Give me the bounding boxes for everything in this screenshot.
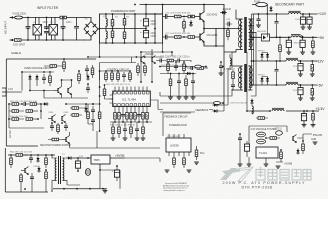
sections go here <box>4 4 257 96</box>
resistor R80 <box>232 70 235 82</box>
resistor R21 <box>144 63 147 76</box>
resistor R32 <box>126 111 129 123</box>
capacitor C50 snub1 <box>275 13 279 38</box>
op-amp U2 LM339 box <box>166 138 191 152</box>
transformer T1 winding ellipses L <box>239 20 241 47</box>
transistor Q9 <box>21 167 29 175</box>
inductor L8 <box>286 82 301 85</box>
wire +12V row <box>252 13 318 15</box>
resistor R3 <box>111 31 114 43</box>
resistor R23 <box>167 62 170 74</box>
diode D7 rect12 <box>269 6 272 12</box>
transformer T1 winding ellipses R <box>250 20 252 47</box>
transformer L1 filter choke <box>33 25 42 36</box>
resistor R34 <box>134 111 137 123</box>
wire gnd bus <box>53 189 107 191</box>
resistor R72 PG <box>195 146 198 160</box>
resistor R8 <box>188 15 195 18</box>
resistor R84 <box>111 122 116 140</box>
transformer T1 secondary winding <box>249 19 251 50</box>
wire choke L1 leads <box>36 18 40 41</box>
wire sb top rail <box>8 154 55 156</box>
inductor L6 <box>291 35 303 38</box>
capacitor C45 <box>123 122 128 140</box>
wire divider2 <box>6 145 38 147</box>
capacitor C38 <box>112 166 120 181</box>
transistor Q8 <box>62 115 66 123</box>
resistor R60 <box>10 155 13 168</box>
resistor R76 <box>280 150 283 162</box>
capacitor C11 <box>286 36 291 52</box>
resistor R9 <box>175 36 182 39</box>
ground ps <box>313 142 318 144</box>
capacitor C26 <box>166 15 167 19</box>
ground fb1 <box>165 170 170 172</box>
wire HV+ rail <box>99 14 101 43</box>
resistor R53 <box>26 110 38 113</box>
transformer T2 primary winding <box>241 66 242 90</box>
wire t2 to control <box>160 89 232 96</box>
ground 33c <box>264 164 269 166</box>
diode pair D9a D9b <box>260 53 269 62</box>
diode D20 <box>36 157 39 163</box>
wire vert x162.6 <box>162 5 164 44</box>
resistor R40 <box>44 65 62 68</box>
capacitor C16 <box>174 59 184 63</box>
diode D5 <box>189 21 192 27</box>
ground fb2 <box>187 170 192 172</box>
U1 pins top <box>115 87 147 92</box>
transistor Q15 <box>62 136 70 144</box>
resistor R73 <box>312 110 315 124</box>
resistor R71 <box>183 156 186 168</box>
transistor Q1 2SC4242 <box>200 12 204 23</box>
U1 pin boxes top <box>114 91 149 94</box>
resistor R36 <box>146 111 149 123</box>
wire -5V row <box>252 84 318 86</box>
wire section divider <box>6 59 96 146</box>
diode D25 <box>296 149 299 155</box>
wire Q1 collector <box>203 5 205 12</box>
wire midband bus3 <box>160 102 223 104</box>
node dots cluster ovp <box>21 71 23 73</box>
wire Q2 emitter <box>204 42 216 46</box>
resistor R92 <box>91 65 94 78</box>
capacitor C40 <box>301 110 306 124</box>
wire HV top line <box>140 4 224 6</box>
ground C11 <box>286 52 291 54</box>
wire sense <box>6 91 22 93</box>
ground R14 <box>310 74 315 76</box>
wire to transformer <box>216 29 241 47</box>
ground 33a <box>238 164 243 166</box>
wire sb left border <box>4 148 6 192</box>
capacitor C46 <box>135 122 140 140</box>
ground C14 <box>298 98 303 100</box>
wire cap leads <box>145 14 147 43</box>
capacitor C14 <box>298 84 303 98</box>
resistor R82 oval <box>195 65 201 68</box>
resistor R14 <box>311 60 314 74</box>
resistor R50 <box>9 103 22 106</box>
inductor L3 <box>106 19 107 27</box>
wire +3.3V row <box>247 110 319 112</box>
wire x99 mid <box>99 71 101 104</box>
wire feedback bus <box>216 46 224 105</box>
capacitor C48 <box>85 65 89 76</box>
resistor R81 <box>256 117 268 120</box>
capacitor C22 <box>137 111 141 123</box>
wire hv to t1 top <box>146 13 163 15</box>
resistor R24 <box>183 62 186 74</box>
U1 pin boxes bottom <box>114 104 149 107</box>
resistor R70 <box>173 156 176 168</box>
diode bridge B1 <box>84 22 98 37</box>
capacitor C15 <box>156 59 166 63</box>
wire L-bottom rail <box>10 39 84 41</box>
wire U1 feedback out <box>150 100 163 110</box>
wire sec to 3.3 <box>246 52 248 111</box>
capacitor C10 <box>307 13 312 27</box>
inductor L4 <box>106 31 107 39</box>
capacitor C41 <box>238 134 242 144</box>
capacitor CY1 CY2 <box>45 18 49 41</box>
diode D22 <box>67 156 73 159</box>
U1 pins bottom <box>115 107 147 111</box>
wire hline y122 <box>110 121 152 123</box>
wire T3 leads <box>52 155 67 192</box>
U2 pins <box>169 134 189 156</box>
watermark elecfans <box>220 168 240 180</box>
resistor R30 <box>114 111 117 123</box>
fuse F1 <box>15 16 23 19</box>
resistor R93 <box>48 138 62 141</box>
wire vert x41 <box>9 104 41 119</box>
wire midband bus2 <box>160 73 196 75</box>
wire links lc <box>9 104 100 128</box>
ground R73 <box>311 125 316 127</box>
rc column D <box>191 74 196 100</box>
resistor R33 <box>130 111 133 123</box>
resistor R91 <box>98 104 101 131</box>
capacitor C13 <box>298 60 303 74</box>
capacitor C24 <box>42 74 46 84</box>
rc column A <box>168 74 173 100</box>
node dots left cluster <box>8 103 10 105</box>
wire vert x224 <box>223 5 225 47</box>
wire sec vertical bus <box>254 14 268 85</box>
resistor R43 <box>78 71 81 84</box>
wire vert x135 <box>134 14 136 43</box>
node dots primary <box>183 16 185 18</box>
regulator U3 7805 box <box>91 155 110 164</box>
resistor R63 <box>20 173 23 192</box>
capacitor CX2 <box>61 18 65 41</box>
wire T2 leads <box>232 66 252 90</box>
resistor R22 <box>167 59 174 62</box>
diode D6 1N4148 <box>221 11 227 14</box>
resistor NTC1 <box>15 39 22 42</box>
coil L11 <box>252 105 253 114</box>
inductor L10 magamp <box>272 108 284 111</box>
wire mid tap <box>100 28 147 30</box>
node dots extra <box>99 103 101 105</box>
resistor R51 <box>30 103 41 106</box>
transformer L2 filter choke <box>49 25 58 36</box>
wire sec center tap <box>251 33 256 96</box>
wire 7805 in-out <box>88 158 125 170</box>
wire T1 primary leads <box>224 10 242 52</box>
capacitor C6 electrolytic <box>140 30 156 38</box>
wire control box <box>100 63 136 81</box>
transformer T2 winding ellipses <box>239 68 253 88</box>
wire ovp drop links <box>88 104 93 131</box>
diode D27 <box>186 72 192 75</box>
diode D23 <box>213 103 225 106</box>
capacitor C19 <box>219 62 224 75</box>
resistor R26 <box>105 71 108 82</box>
capacitor C36 <box>30 173 34 183</box>
transformer T3 core <box>58 156 60 184</box>
capacitor C30 <box>24 102 29 106</box>
wire sb out <box>73 157 89 159</box>
capacitor C47 <box>91 115 95 126</box>
capacitor C35 <box>29 155 33 163</box>
transformer T2 core <box>244 64 247 92</box>
transformer T3 secondary <box>63 158 64 180</box>
op-amp U4 TL431 box <box>256 147 278 158</box>
capacitor C44 <box>231 82 235 90</box>
resistor R4 <box>123 14 126 32</box>
wire midband bus1 <box>160 66 206 68</box>
resistor R11 mid <box>183 19 186 32</box>
capacitor C21 <box>121 111 125 123</box>
resistor R1 top rail <box>60 16 67 19</box>
capacitor C20 <box>122 72 126 82</box>
resistor R57 <box>70 107 82 110</box>
diode D24 <box>213 105 225 113</box>
resistor R27 <box>111 71 114 82</box>
ground C12 <box>300 52 305 54</box>
capacitor C37 <box>75 157 80 171</box>
resistor R13 <box>312 36 315 52</box>
resistor R61 <box>16 154 28 157</box>
transistor Q11 oval <box>257 132 266 137</box>
resistor R10 <box>188 36 195 39</box>
diode D12 <box>28 75 31 81</box>
resistor R54 <box>9 118 24 121</box>
wire U1 left pins <box>110 95 113 103</box>
resistor R20 <box>137 63 140 76</box>
transistor Q6 <box>68 87 72 95</box>
wire 33 bottoms <box>240 144 266 164</box>
wire +5V row <box>252 36 318 38</box>
transformer T1 primary winding <box>241 19 243 50</box>
transformer T2 secondary winding <box>249 66 251 90</box>
wire q15 <box>69 132 71 148</box>
transformer T1 core <box>244 17 247 53</box>
resistor R15 <box>311 84 314 98</box>
ground bus end <box>103 191 108 193</box>
wire L-top rail <box>10 17 84 19</box>
node dots standby <box>10 154 12 156</box>
node input arrows <box>10 16 13 41</box>
wire row2 <box>163 36 200 38</box>
wire y62 run <box>163 52 191 62</box>
transistor Q14 <box>293 135 297 143</box>
resistor R90 <box>87 108 90 124</box>
ground C10 <box>307 27 312 29</box>
resistor R28 <box>117 71 120 82</box>
wire Q1 emitter to node <box>204 21 224 28</box>
rectifier D8 block <box>262 34 270 41</box>
resistor R2 <box>111 14 114 31</box>
junction dots input <box>27 17 29 19</box>
wire feedback line <box>160 110 213 113</box>
resistor R56 <box>57 123 60 134</box>
resistor R94 left of IC <box>103 84 113 99</box>
wire drive parts <box>224 68 228 105</box>
wire 33 box <box>249 126 287 144</box>
resistor R85 <box>118 122 121 138</box>
wire bridge AC in <box>84 18 91 41</box>
wire sb drops <box>32 182 52 192</box>
node dots gnd bus <box>63 188 65 190</box>
ground fb3 <box>194 162 199 164</box>
wire row1 <box>163 16 200 18</box>
wire drive bus1 <box>232 52 236 68</box>
wire T1 secondary taps <box>249 19 256 50</box>
diode D14 <box>86 75 89 81</box>
resistor R62 <box>45 155 48 168</box>
resistor R64 <box>45 170 48 182</box>
wire sb bottom rail <box>5 191 48 193</box>
resistor R75 <box>302 141 305 154</box>
capacitor CX3 <box>75 18 79 41</box>
wire ovp links <box>22 72 88 98</box>
capacitor C5 electrolytic <box>140 19 156 27</box>
diode D26 <box>250 99 253 105</box>
wire bridge DC out <box>98 28 100 30</box>
resistor R87 <box>141 122 146 140</box>
capacitor C12 <box>300 36 305 52</box>
resistor R29 <box>129 71 132 82</box>
transistor Q10 opto <box>85 169 90 176</box>
node dots control <box>105 70 107 72</box>
transistor Q13 BT131 <box>275 129 282 136</box>
capacitor C9 <box>300 13 305 27</box>
resistor R55 <box>26 118 38 121</box>
resistor R7 <box>175 15 182 18</box>
fuse F2 output <box>252 1 267 14</box>
capacitor C25 <box>86 84 90 93</box>
diode D13 <box>35 75 38 81</box>
wire drive lines <box>141 49 163 82</box>
wire sb link <box>125 158 283 162</box>
wire sec vertical bus2 <box>251 14 253 85</box>
transistor Q4 2SC945 <box>152 56 156 64</box>
resistor R52 <box>9 110 24 113</box>
resistor R83 oval <box>214 102 221 105</box>
coil L9 vert <box>230 54 231 70</box>
inductor L5 <box>289 11 301 14</box>
transformer T3 primary <box>55 158 56 180</box>
capacitor CX1 <box>26 18 30 41</box>
capacitor C31 <box>50 123 54 131</box>
wire driver rail y57 <box>88 43 163 63</box>
wire ps-on <box>303 134 312 141</box>
resistor R25 <box>197 67 208 70</box>
wire 5vsb feed <box>70 131 160 148</box>
resistor R86 <box>130 122 133 138</box>
transistor Q2 2SC4242 <box>200 32 204 43</box>
wire coil leads <box>105 14 107 43</box>
transistor Q5 <box>54 87 62 95</box>
transistor Q7 <box>48 115 56 123</box>
capacitor C32 <box>64 123 68 131</box>
wire -12V row <box>252 60 318 62</box>
wire Q2 collector <box>203 29 205 33</box>
diode D16 <box>84 107 87 113</box>
transistor Q12 oval <box>257 139 266 144</box>
ground 33d <box>276 166 281 168</box>
connector J1 pins <box>2 88 6 96</box>
capacitor C18 <box>187 66 196 70</box>
capacitor C51 snub2 <box>275 60 279 86</box>
ground R15 <box>310 98 315 100</box>
wire choke L2 leads <box>52 18 56 41</box>
diode pair D10a D10b <box>260 77 269 86</box>
resistor R95 snub <box>279 36 282 62</box>
rc column C <box>184 75 189 99</box>
junction dots doubler <box>105 13 107 15</box>
node dots 33 <box>246 110 248 112</box>
wire hline y71 <box>100 70 130 72</box>
resistor R42 <box>49 73 52 86</box>
resistor R31 <box>118 111 121 123</box>
ground 33b <box>247 164 252 166</box>
capacitor C42 <box>244 141 249 157</box>
wire cap top feed <box>146 5 155 44</box>
diode D21 <box>37 167 40 173</box>
resistor R12 <box>227 30 230 40</box>
ground R13 <box>311 52 316 54</box>
rc column B <box>177 74 182 100</box>
capacitor C17 <box>174 62 178 71</box>
capacitor C28 <box>226 22 232 26</box>
resistor R41 vert <box>63 59 66 72</box>
resistor R74 <box>266 137 280 140</box>
wire fb box <box>163 113 191 136</box>
capacitor C27 <box>166 35 167 39</box>
inductor L7 <box>286 58 301 61</box>
watermark 7 swoosh <box>238 167 253 182</box>
capacitor C52 <box>256 13 261 27</box>
op-amp U1 TL494 box <box>113 91 151 107</box>
resistor R5 <box>123 32 126 43</box>
wire sb misc <box>67 170 120 189</box>
ground C40 <box>302 125 307 127</box>
diode D15 <box>43 102 49 105</box>
transistor Q3 2SC945 <box>141 56 145 64</box>
resistor R35 <box>142 111 145 123</box>
capacitor C33 <box>91 106 95 115</box>
ground C13 <box>298 74 303 76</box>
ground C9 <box>301 27 306 29</box>
node dots midband <box>170 73 172 75</box>
resistor R58 <box>70 114 82 117</box>
